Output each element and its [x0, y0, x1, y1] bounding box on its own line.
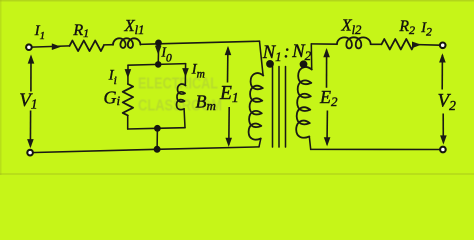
shunt bottom wire: [128, 128, 185, 129]
junction J1: [155, 40, 162, 47]
arrow I2: [412, 42, 421, 49]
arrowheads: [52, 42, 421, 79]
inductor Xl2: [337, 37, 371, 48]
polarity dot primary: [266, 60, 274, 68]
E1 arrow: [225, 46, 232, 147]
secondary top rail: [311, 43, 337, 45]
resistor R2: [382, 39, 415, 49]
junction J4: [154, 146, 161, 153]
inductor Xl1: [113, 38, 140, 48]
arrow Ii: [125, 69, 132, 78]
core line 2: [278, 67, 280, 148]
core line 3: [285, 67, 287, 148]
resistor Gi: [123, 84, 133, 116]
terminals: [26, 43, 446, 156]
shunt top wire: [128, 64, 186, 66]
arrow I0: [155, 46, 162, 55]
V2 arrow: [439, 53, 447, 144]
wire Im drop: [184, 64, 186, 86]
junction J3: [154, 125, 161, 132]
bottom rail: [30, 147, 259, 153]
wire R2 to T3: [414, 44, 440, 47]
arrow I1: [52, 43, 61, 50]
svg-text::: :: [284, 43, 290, 63]
wire I0 drop: [157, 44, 160, 64]
wire Xl1 to junction to transformer corner: [140, 41, 259, 44]
terminal T4: [440, 147, 446, 153]
terminal T3: [440, 43, 446, 49]
terminal T2: [27, 150, 33, 156]
wire Ii drop: [127, 65, 129, 84]
wire shunt to bottom rail: [156, 128, 158, 149]
E2 arrow: [323, 48, 330, 146]
secondary bottom lead: [309, 137, 310, 150]
junction dots: [154, 40, 308, 153]
polarity dot secondary: [300, 60, 308, 68]
primary bottom lead: [259, 139, 261, 147]
secondary winding: [296, 67, 312, 138]
primary top lead: [260, 41, 264, 75]
secondary bottom rail: [311, 148, 443, 150]
secondary top lead: [310, 44, 312, 70]
terminal T1: [26, 44, 32, 50]
wire T1 to R1: [32, 46, 70, 47]
wire Bm to bottom corner: [183, 109, 186, 128]
wire Xl2 to R2: [371, 43, 382, 45]
V1 arrow: [27, 54, 34, 148]
wire R1 to Xl1: [104, 44, 113, 46]
primary winding: [249, 73, 264, 140]
core line 1: [272, 67, 274, 148]
resistor R1: [70, 41, 104, 52]
node J2: [155, 61, 162, 68]
inductor Bm: [176, 84, 185, 110]
arrow Im: [182, 68, 189, 77]
wire Gi to bottom corner: [127, 116, 129, 130]
